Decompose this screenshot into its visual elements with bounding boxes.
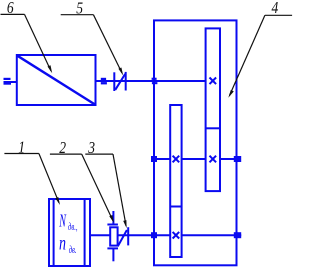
bearing at gearbox left wall on shaft I (152, 78, 158, 85)
bearing square left wall shaft II (151, 156, 157, 162)
callout 4 (228, 0, 292, 98)
fixed-gear cross on shaft II right column (210, 156, 217, 163)
shaft I from unit 6 to gearbox (96, 80, 206, 82)
bearing square right wall shaft III (234, 232, 241, 238)
callout 2 (50, 138, 114, 223)
shaft II segment between gears (182, 158, 206, 160)
motor 1 housing (49, 199, 90, 266)
gear block on shafts II-III (middle column) (170, 105, 181, 257)
shaft III segment gear to beyond right wall (182, 234, 242, 236)
fixed-gear cross on shaft III middle column (173, 232, 180, 239)
svg-text:дв.,: дв., (68, 220, 78, 232)
shaft II segment right gear to wall (220, 158, 237, 160)
driven unit 6 (box with diagonal) (17, 55, 96, 105)
fixed-gear cross on shaft II middle column (173, 156, 180, 163)
callout 6 (1, 0, 53, 73)
bearing square right wall shaft II (234, 156, 241, 162)
shaft III segment motor to middle gear (90, 234, 170, 236)
shaft stub left of unit 6 (4, 78, 17, 85)
callout 3 (85, 138, 126, 228)
shaft II segment wall to middle gear (154, 158, 170, 160)
callout 5 (61, 0, 123, 76)
brake 2 (107, 211, 118, 261)
fixed-gear cross on shaft I (210, 78, 217, 85)
svg-text:дв.: дв. (69, 243, 77, 255)
svg-text:N: N (59, 212, 67, 232)
svg-text:n: n (59, 232, 66, 254)
gear block on shafts I-II (right column) (206, 28, 220, 191)
coupling 5 (114, 72, 125, 91)
gearbox housing 4 (154, 20, 237, 265)
bearing square left wall shaft III (151, 232, 157, 238)
coupling 3 (118, 227, 128, 246)
bearing right of unit 6 (101, 78, 107, 85)
callout 1 (4, 138, 60, 205)
